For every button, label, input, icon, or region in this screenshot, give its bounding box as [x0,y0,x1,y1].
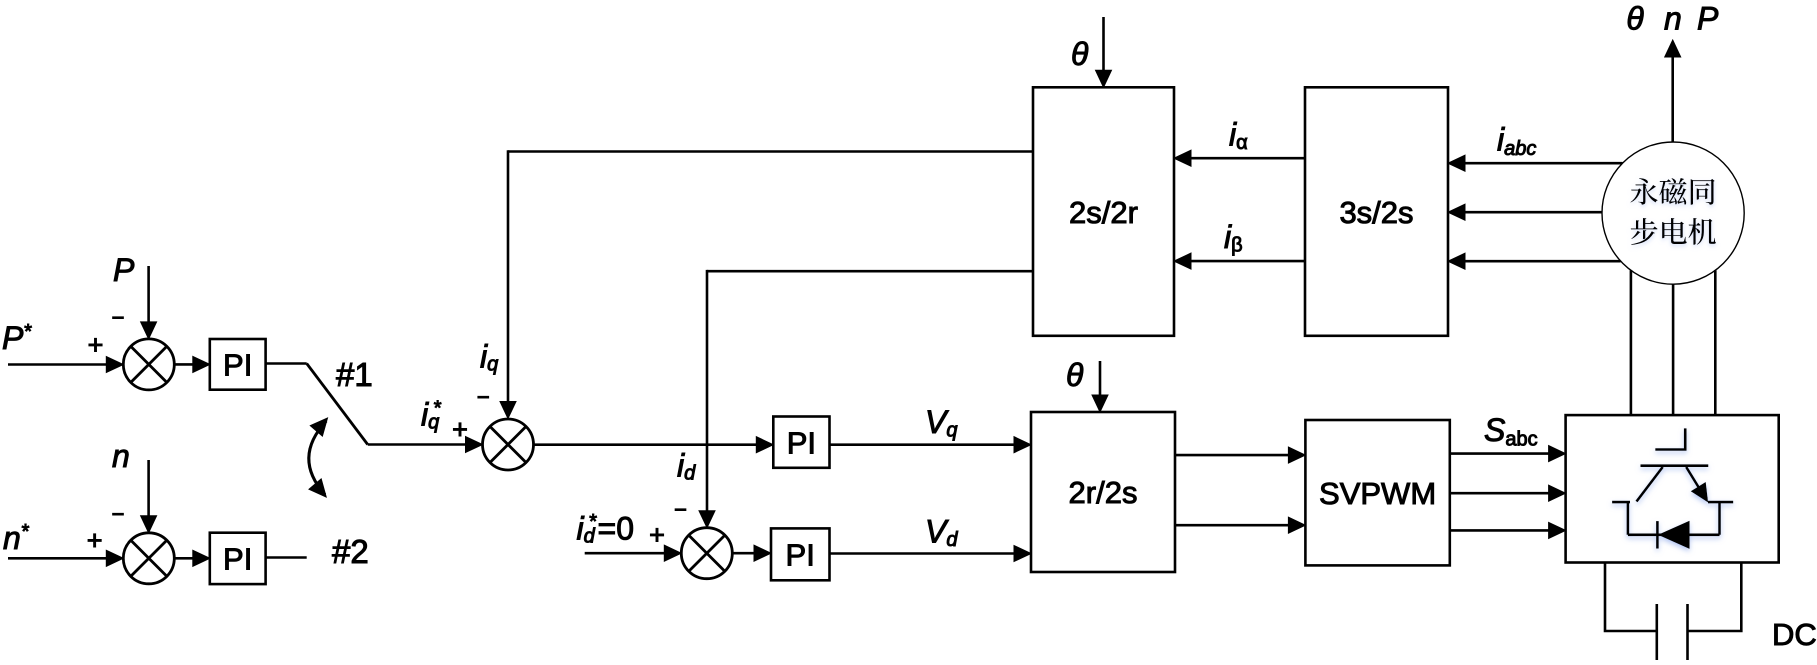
wire motor down phase a [1630,270,1633,415]
block inverter [1566,415,1779,562]
wire iq feedback: vertical down to S3 [500,150,516,418]
svg-text:#2: #2 [332,533,369,570]
minus sign at summing junction S3 [477,385,490,410]
wire S2 to PI2 [174,550,210,566]
label id feedback [677,448,696,485]
motor label row 2 (bu dian ji) [1631,218,1716,245]
block 3s/2s [1305,87,1448,335]
IGBT with freewheeling diode symbol [1612,428,1733,548]
wire theta arrow into 2r/2s [1092,361,1108,412]
svg-text:PI: PI [786,538,815,573]
switch #1 arm [307,364,368,445]
svg-text:−: − [112,502,125,527]
block PI2 [210,533,266,584]
wire motor to 3s/2s phase a [1448,155,1623,171]
summing junction S3 [483,419,534,470]
block 2s/2r [1033,87,1174,335]
block PI1 [210,339,266,390]
label i-abc [1497,122,1536,161]
motor label row 1 (yong ci tong) [1630,178,1714,205]
wire id feedback: horizontal from 2s/2r [707,270,1033,273]
svg-text:SVPWM: SVPWM [1319,476,1436,511]
svg-text:PI: PI [223,348,252,383]
input label n* [3,520,30,556]
wire i-beta 3s/2s to 2s/2r [1174,253,1305,269]
svg-text:3s/2s: 3s/2s [1339,195,1413,230]
svg-text:θ: θ [1071,36,1089,72]
svg-text:n: n [112,438,130,474]
feedback label n [112,438,130,474]
block SVPWM [1305,420,1449,565]
label #1 [336,356,373,393]
wire iq feedback: horizontal from 2s/2r [508,150,1033,153]
feedback label P [113,252,135,288]
svg-text:P: P [1697,1,1719,37]
motor circle PMSM [1602,142,1744,284]
wire n* input [8,550,123,566]
svg-text:+: + [452,415,468,445]
svg-text:−: − [674,497,687,522]
wire SVPWM to inverter 3 [1450,522,1566,538]
capacitor DC link right plate [1686,604,1689,660]
svg-text:P: P [113,252,135,288]
label iq feedback [480,339,498,376]
summing junction S2 [123,533,174,584]
svg-text:PI: PI [787,425,816,460]
wire motor to 3s/2s phase b [1448,204,1602,220]
block PI4 [771,528,830,580]
label DC [1772,617,1817,652]
wire PI3 to 2r/2s [830,437,1032,453]
wire P feedback down [141,266,157,339]
plus sign at summing junction S2 [87,526,103,556]
input label P* [2,320,32,356]
wire 2r/2s to SVPWM upper [1175,447,1305,463]
wire PI4 to 2r/2s [830,546,1032,562]
svg-text:−: − [477,385,490,410]
svg-text:+: + [649,520,665,550]
minus sign at summing junction S4 [674,497,687,522]
summing junction S1 [123,339,174,390]
svg-text:2s/2r: 2s/2r [1069,195,1138,230]
wire inverter to DC right [1688,563,1742,632]
wire id feedback: vertical down to S4 [699,270,715,528]
minus sign at summing junction S2 [112,502,125,527]
svg-text:θ: θ [1066,357,1084,393]
plus sign at summing junction S4 [649,520,665,550]
wire PI2 output [266,556,307,559]
wire SVPWM to inverter 2 [1450,485,1566,501]
wire S1 to PI1 [174,356,210,372]
svg-text:+: + [87,526,103,556]
switch curved double arrow [309,418,328,497]
label #2 [332,533,369,570]
wire S3 to PI3 [534,437,774,453]
wire i-alpha 3s/2s to 2s/2r [1174,150,1305,166]
label theta for 2s/2r [1071,36,1089,72]
wire S4 to PI4 [732,545,771,561]
wire inverter to DC left [1605,563,1657,632]
label Vq [925,404,957,442]
label i-beta [1224,219,1243,257]
wire id* input [585,545,682,561]
wire P* input [8,357,123,373]
wire switch to summing junction S3 [368,437,483,453]
svg-text:+: + [88,330,104,360]
svg-text:=0: =0 [598,511,634,547]
wire n feedback down [141,460,157,533]
svg-text:PI: PI [223,542,252,577]
block PI3 [773,417,829,468]
svg-text:#1: #1 [336,356,373,393]
svg-text:θ: θ [1626,1,1644,37]
wire SVPWM to inverter 1 [1450,446,1566,462]
block 2r/2s [1031,412,1175,572]
label theta for 2r/2s [1066,357,1084,393]
wire motor down phase b [1672,284,1675,415]
summing junction S4 [681,528,732,579]
label theta n P outputs [1626,1,1719,37]
wire 2r/2s to SVPWM lower [1175,517,1305,533]
plus sign at summing junction S3 [452,415,468,445]
plus sign at summing junction S1 [88,330,104,360]
label id*=0 [577,511,634,548]
wire motor down phase c [1714,270,1717,415]
svg-text:2r/2s: 2r/2s [1069,475,1138,510]
wire theta arrow into 2s/2r [1096,17,1112,87]
label Sabc [1484,412,1538,451]
label Vd [925,514,958,552]
label iq* [421,396,442,433]
wire motor sensor output up [1665,40,1681,142]
capacitor DC link left plate [1656,604,1659,660]
svg-text:n: n [1664,1,1682,37]
wire motor to 3s/2s phase c [1448,253,1621,269]
wire PI1 output [266,362,307,365]
svg-text:DC: DC [1772,617,1817,652]
label i-alpha [1229,117,1248,155]
minus sign at summing junction S1 [112,305,125,330]
svg-text:−: − [112,305,125,330]
